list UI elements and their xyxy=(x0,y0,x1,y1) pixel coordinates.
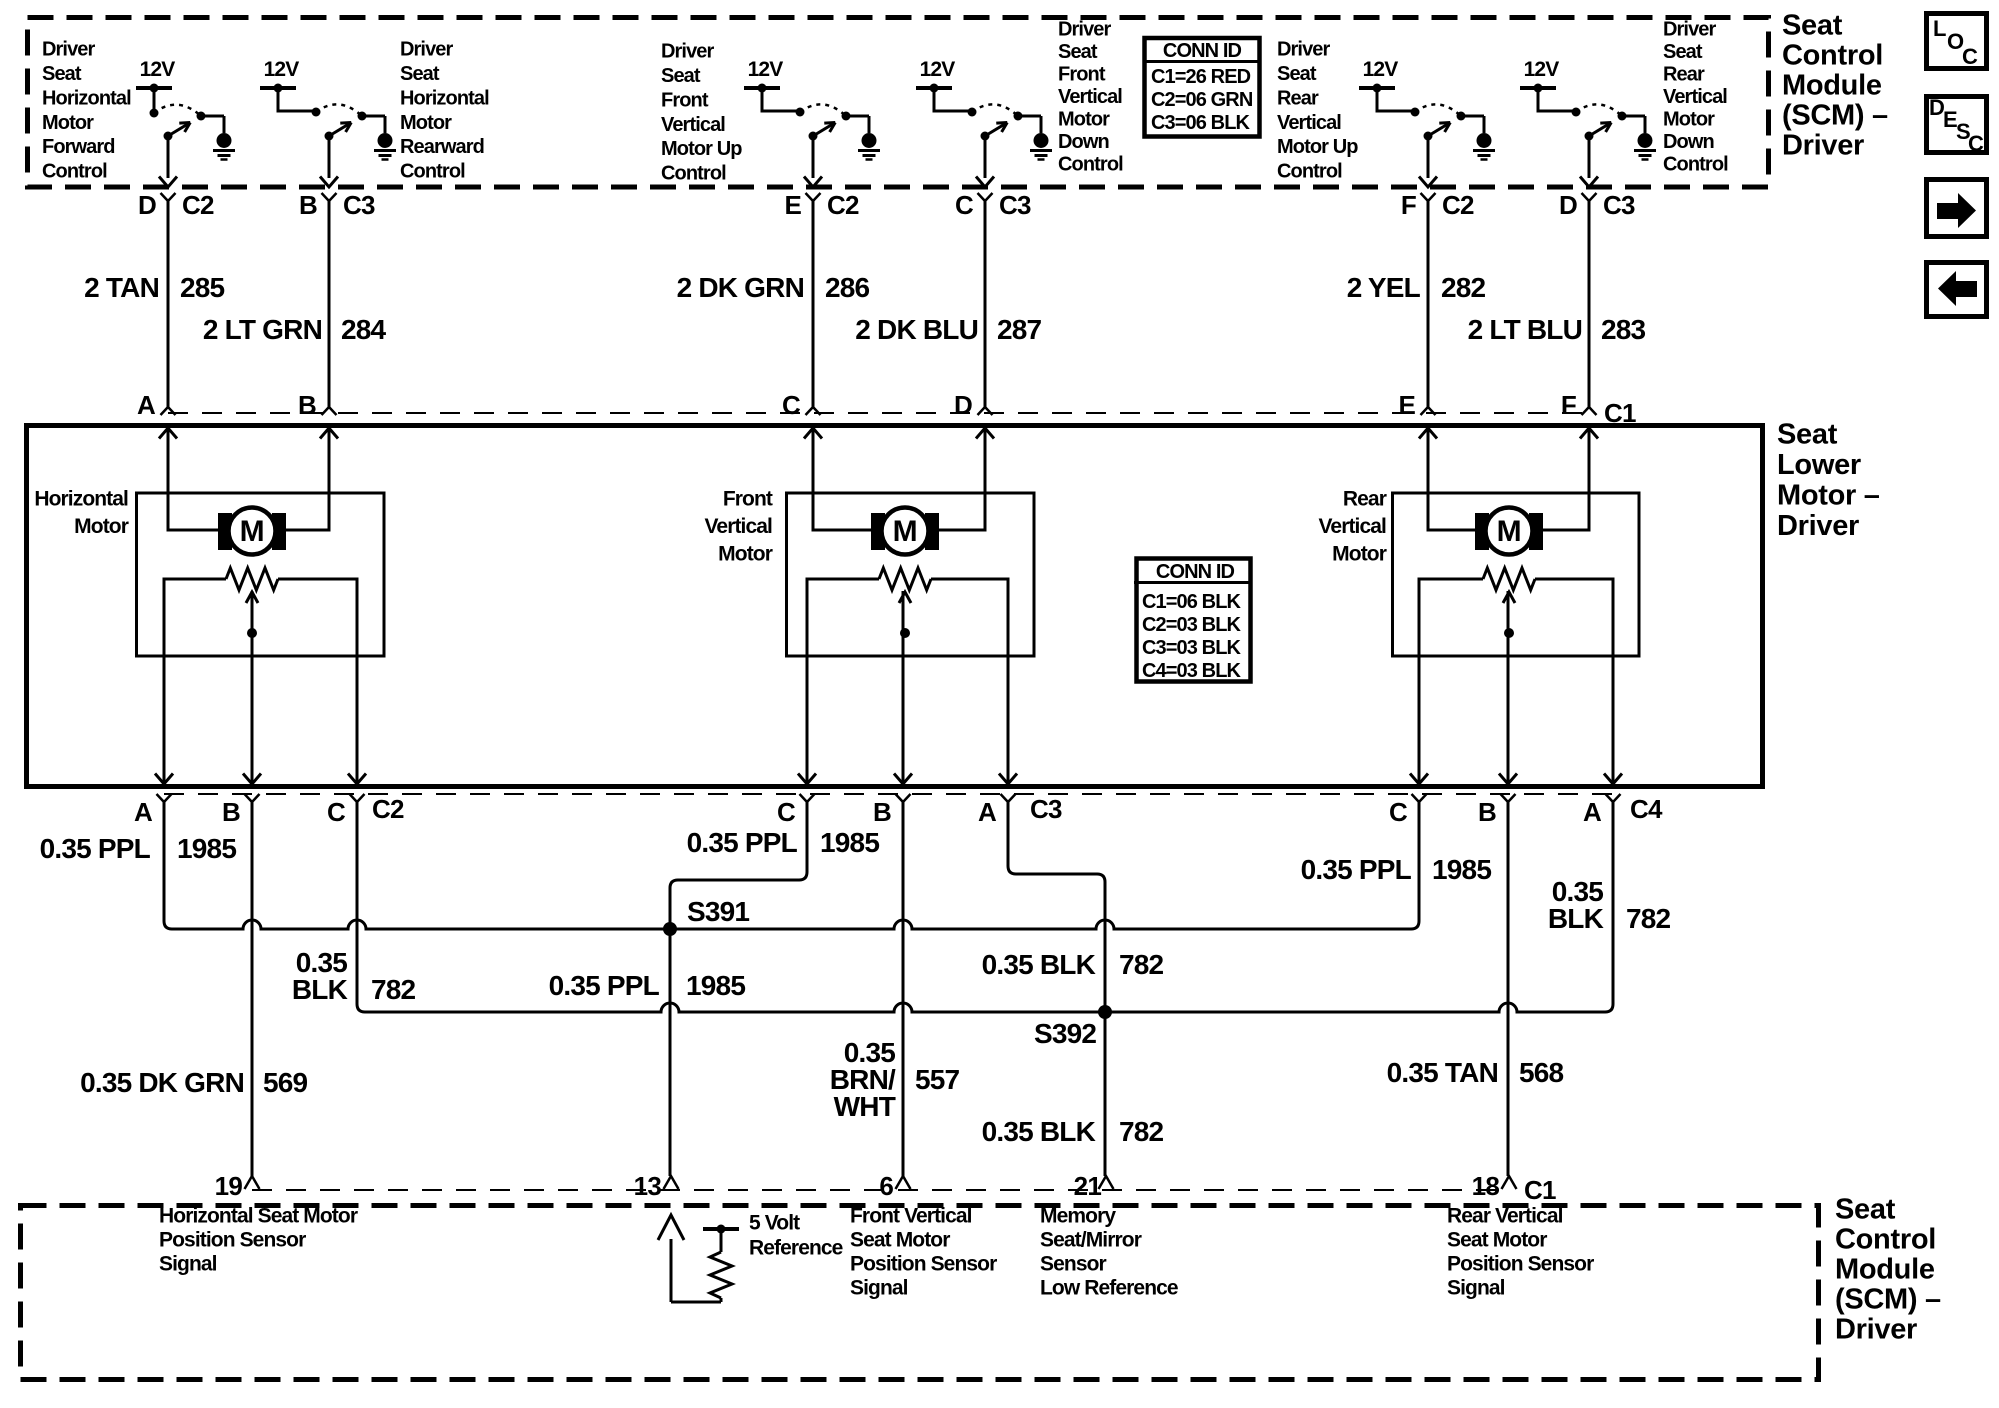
svg-text:287: 287 xyxy=(997,314,1042,345)
pin B of seat lower motor bottom connector xyxy=(896,794,911,802)
ground symbol of switch S4 (front vertical down) xyxy=(1018,115,1041,118)
svg-text:Lower: Lower xyxy=(1777,449,1861,481)
svg-text:0.35 DK GRN: 0.35 DK GRN xyxy=(80,1067,244,1098)
svg-text:C2: C2 xyxy=(827,190,859,220)
svg-text:L: L xyxy=(1933,16,1946,41)
switch S3 (front vertical up) - contact point xyxy=(842,112,851,121)
svg-text:C2: C2 xyxy=(372,794,404,824)
svg-text:Control: Control xyxy=(1277,161,1342,183)
svg-text:569: 569 xyxy=(263,1067,308,1098)
svg-text:Reference: Reference xyxy=(749,1236,843,1259)
svg-text:Control: Control xyxy=(1782,40,1883,72)
svg-text:285: 285 xyxy=(180,272,225,303)
next-page arrow box xyxy=(1927,180,1987,237)
position sensor potentiometer of Horizontal Motor - resistive element xyxy=(226,568,278,590)
svg-text:D: D xyxy=(954,390,972,420)
signal arrow into motor box at pin B xyxy=(320,428,338,439)
svg-text:Control: Control xyxy=(42,161,107,183)
svg-text:Down: Down xyxy=(1663,131,1714,153)
switch S2 (seat rearward) - dashed throw arc xyxy=(316,104,362,116)
svg-text:0.35 PPL: 0.35 PPL xyxy=(1301,854,1412,885)
pin E / connector C2 of SCM top xyxy=(806,193,821,201)
svg-text:Control: Control xyxy=(1663,154,1728,176)
SCM pin 13 xyxy=(664,1176,679,1189)
signal arrow leaving motor box xyxy=(1604,774,1622,785)
svg-text:Motor: Motor xyxy=(42,112,94,134)
svg-text:BLK: BLK xyxy=(1548,903,1604,934)
switch S5 (rear vertical up) - supply stem wire xyxy=(1377,88,1415,111)
svg-text:21: 21 xyxy=(1074,1171,1102,1201)
signal arrow leaving motor box xyxy=(1499,774,1517,785)
svg-text:Front: Front xyxy=(1058,64,1106,86)
switch S4 (front vertical down) - dashed throw arc xyxy=(972,104,1018,116)
rear vertical motor sensor lead A (right) xyxy=(1535,579,1613,784)
svg-text:C3=06 BLK: C3=06 BLK xyxy=(1151,112,1251,134)
svg-text:6: 6 xyxy=(879,1171,893,1201)
svg-text:2 LT BLU: 2 LT BLU xyxy=(1468,314,1582,345)
Horizontal Motor sub-assembly box xyxy=(137,493,385,656)
signal arrow leaving motor box xyxy=(243,774,261,785)
svg-text:B: B xyxy=(299,190,317,220)
motor Horizontal Motor - terminal blocks xyxy=(218,513,232,550)
svg-text:2 LT GRN: 2 LT GRN xyxy=(203,314,322,345)
wire pin A to horizontal motor + terminal xyxy=(168,428,218,530)
svg-text:C4: C4 xyxy=(1630,794,1663,824)
svg-text:782: 782 xyxy=(1119,949,1164,980)
ground symbol of switch S1 (seat forward) xyxy=(201,115,224,118)
svg-text:Control: Control xyxy=(400,161,465,183)
motor Horizontal Motor - armature circle with M xyxy=(229,508,276,555)
svg-text:0.35 BLK: 0.35 BLK xyxy=(982,1116,1096,1147)
wire from SCM pin B (C3) down to seat lower motor xyxy=(328,201,331,407)
pin A of seat lower motor connector xyxy=(161,407,176,415)
svg-text:Rear Vertical: Rear Vertical xyxy=(1447,1204,1563,1227)
switch S4 (front vertical down) - 12V supply bar xyxy=(916,86,952,90)
svg-text:Driver: Driver xyxy=(1058,19,1112,41)
ground symbol of switch S3 (front vertical up) xyxy=(846,115,869,118)
signal arrow leaving motor box xyxy=(155,774,173,785)
switch S1 (seat forward) - lever with arrowhead xyxy=(164,132,173,141)
SCM pin 21 xyxy=(1099,1176,1114,1189)
svg-text:0.35 PPL: 0.35 PPL xyxy=(40,833,151,864)
connector ID table (SCM): C1=26 RED C2=06 GRN C3=06 BLK xyxy=(1145,38,1260,137)
svg-text:Vertical: Vertical xyxy=(1277,112,1341,134)
svg-text:C4=03 BLK: C4=03 BLK xyxy=(1142,660,1242,682)
svg-text:Position Sensor: Position Sensor xyxy=(1447,1252,1594,1275)
svg-text:Driver: Driver xyxy=(661,41,715,63)
signal arrow into motor box at pin C xyxy=(804,428,822,439)
svg-text:WHT: WHT xyxy=(834,1091,896,1122)
switch S4 (front vertical down) - lever with arrowhead xyxy=(981,132,990,141)
svg-text:D: D xyxy=(138,190,156,220)
svg-text:C1=06 BLK: C1=06 BLK xyxy=(1142,591,1242,613)
front vertical motor sensor lead C (left) xyxy=(807,579,879,784)
potentiometer Horizontal Motor - wiper arrow xyxy=(246,592,258,603)
svg-text:1985: 1985 xyxy=(1432,854,1491,885)
svg-text:Rearward: Rearward xyxy=(400,136,484,158)
SCM pin 18 xyxy=(1502,1176,1517,1189)
svg-text:C2=06 GRN: C2=06 GRN xyxy=(1151,89,1253,111)
svg-text:Seat: Seat xyxy=(42,63,82,85)
svg-text:Front Vertical: Front Vertical xyxy=(850,1204,972,1227)
switch S1 (seat forward) - output wire to module pin xyxy=(167,136,170,178)
signal arrow into motor box at pin A xyxy=(159,428,177,439)
SCM pin 19 xyxy=(245,1176,260,1189)
svg-text:Seat: Seat xyxy=(1277,63,1317,85)
switch S3 (front vertical up) - 12V supply bar xyxy=(744,86,780,90)
svg-text:Rear: Rear xyxy=(1277,87,1319,109)
svg-text:Driver: Driver xyxy=(1663,19,1717,41)
svg-text:C2=03 BLK: C2=03 BLK xyxy=(1142,614,1242,636)
svg-text:Seat: Seat xyxy=(400,63,440,85)
svg-text:Memory: Memory xyxy=(1040,1204,1116,1227)
svg-text:Horizontal Seat Motor: Horizontal Seat Motor xyxy=(159,1204,358,1227)
pin F / connector C2 of SCM top xyxy=(1421,193,1436,201)
svg-text:12V: 12V xyxy=(748,58,784,81)
svg-text:C: C xyxy=(1962,44,1978,69)
pin D of seat lower motor connector xyxy=(978,407,993,415)
potentiometer Horizontal Motor - wiper junction dot xyxy=(247,628,257,638)
ground symbol of switch S2 (seat rearward) xyxy=(362,115,385,118)
ground symbol of switch S6 (rear vertical down) xyxy=(1622,115,1645,118)
pin C of seat lower motor bottom connector xyxy=(350,794,365,802)
svg-text:Motor Up: Motor Up xyxy=(661,138,742,160)
switch S6 (rear vertical down) - dashed throw arc xyxy=(1576,104,1622,116)
svg-text:C: C xyxy=(955,190,974,220)
switch S3 (front vertical up) - supply stem wire xyxy=(762,88,800,111)
splice S391 xyxy=(663,922,677,936)
pin D / connector C3 of SCM top xyxy=(1582,193,1597,201)
signal arrow leaving motor box xyxy=(348,774,366,785)
svg-text:Driver: Driver xyxy=(1277,39,1331,61)
svg-text:Vertical: Vertical xyxy=(661,114,725,136)
svg-text:Seat: Seat xyxy=(1782,10,1843,42)
pin E of seat lower motor connector xyxy=(1421,407,1436,415)
wire: 0.35 DK GRN 569 from pin B to SCM pin 19 xyxy=(251,802,254,1176)
signal arrow leaving motor box xyxy=(894,774,912,785)
svg-text:Vertical: Vertical xyxy=(1058,86,1122,108)
svg-text:Driver: Driver xyxy=(1777,510,1859,542)
switch S2 (seat rearward) - supply stem wire xyxy=(278,88,316,111)
motor Front Vertical Motor - armature circle with M xyxy=(882,508,929,555)
svg-text:Module: Module xyxy=(1782,70,1882,102)
svg-text:C: C xyxy=(1389,797,1408,827)
pin B of seat lower motor bottom connector xyxy=(1501,794,1516,802)
signal arrow leaving motor box xyxy=(1410,774,1428,785)
svg-text:S391: S391 xyxy=(687,896,749,927)
horizontal motor wiper lead B xyxy=(251,591,254,784)
wire pin E to rear vertical motor + terminal xyxy=(1428,428,1475,530)
wire from SCM pin E (C2) down to seat lower motor xyxy=(812,201,815,407)
svg-text:C1: C1 xyxy=(1524,1175,1556,1205)
svg-text:CONN ID: CONN ID xyxy=(1156,561,1235,583)
signal arrow into motor box at pin E xyxy=(1419,428,1437,439)
svg-text:1985: 1985 xyxy=(686,970,745,1001)
svg-text:1985: 1985 xyxy=(177,833,236,864)
switch S5 (rear vertical up) - lever with arrowhead xyxy=(1424,132,1433,141)
horizontal motor sensor lead A (left) xyxy=(164,579,226,784)
svg-text:F: F xyxy=(1561,390,1576,420)
switch S1 (seat forward) - contact point xyxy=(197,112,206,121)
motor Rear Vertical Motor - armature circle with M xyxy=(1486,508,1533,555)
svg-text:Horizontal: Horizontal xyxy=(400,87,489,109)
connector ID table (motor): C1=06 BLK C2=03 BLK C3=03 BLK C4=03 BLK xyxy=(1137,559,1251,682)
svg-text:C: C xyxy=(327,797,346,827)
svg-text:Driver: Driver xyxy=(1782,130,1864,162)
ground symbol of switch S5 (rear vertical up) xyxy=(1461,115,1484,118)
potentiometer Rear Vertical Motor - wiper arrow xyxy=(1503,592,1515,603)
svg-text:Driver: Driver xyxy=(1835,1314,1917,1346)
Front Vertical Motor sub-assembly box xyxy=(787,493,1035,656)
svg-text:18: 18 xyxy=(1472,1171,1500,1201)
svg-text:Horizontal: Horizontal xyxy=(42,87,131,109)
svg-text:Driver: Driver xyxy=(42,39,96,61)
svg-text:Signal: Signal xyxy=(1447,1276,1505,1299)
svg-text:Seat Motor: Seat Motor xyxy=(850,1228,950,1251)
svg-text:Seat: Seat xyxy=(661,65,701,87)
switch S3 (front vertical up) - output wire to module pin xyxy=(812,136,815,178)
svg-text:C3: C3 xyxy=(1603,190,1635,220)
wire: 0.35 BLK 782 from front vertical motor pin A to S392 xyxy=(1008,802,1105,1176)
svg-text:1985: 1985 xyxy=(820,827,879,858)
svg-text:(SCM) –: (SCM) – xyxy=(1835,1284,1941,1316)
motor Front Vertical Motor - terminal blocks xyxy=(871,513,885,550)
switch S4 (front vertical down) - output wire to module pin xyxy=(984,136,987,178)
svg-text:Position Sensor: Position Sensor xyxy=(850,1252,997,1275)
svg-text:M: M xyxy=(240,515,265,548)
switch S2 (seat rearward) - contact point xyxy=(358,112,367,121)
net run: 0.35 PPL 1985 sensor supply bus (through S391) xyxy=(164,802,1419,929)
pin C / connector C3 of SCM top xyxy=(978,193,993,201)
switch S1 (seat forward) - 12V supply bar xyxy=(136,86,172,90)
pin C of seat lower motor connector xyxy=(806,407,821,415)
pin B of seat lower motor connector xyxy=(322,407,337,415)
svg-text:Position Sensor: Position Sensor xyxy=(159,1228,306,1251)
svg-text:Motor: Motor xyxy=(1332,542,1387,565)
switch S1 (seat forward) - supply stem wire xyxy=(153,88,156,112)
svg-text:C: C xyxy=(782,390,801,420)
svg-text:A: A xyxy=(137,390,156,420)
svg-text:Driver: Driver xyxy=(400,39,454,61)
svg-text:C1=26 RED: C1=26 RED xyxy=(1151,66,1251,88)
rear vertical motor wiper lead B xyxy=(1507,591,1510,784)
pin F of seat lower motor connector xyxy=(1582,407,1597,415)
signal arrow into motor box at pin D xyxy=(976,428,994,439)
svg-text:C3: C3 xyxy=(1030,794,1062,824)
svg-text:Signal: Signal xyxy=(159,1252,217,1275)
svg-text:19: 19 xyxy=(215,1171,243,1201)
svg-text:0.35 BLK: 0.35 BLK xyxy=(982,949,1096,980)
svg-text:2 DK GRN: 2 DK GRN xyxy=(677,272,804,303)
svg-text:C: C xyxy=(777,797,796,827)
splice S392 xyxy=(1098,1005,1112,1019)
switch S6 (rear vertical down) - contact point xyxy=(1618,112,1627,121)
svg-text:Seat: Seat xyxy=(1663,41,1703,63)
svg-text:Vertical: Vertical xyxy=(704,515,772,538)
wire from SCM pin D (C2) down to seat lower motor xyxy=(167,201,170,407)
svg-text:Seat: Seat xyxy=(1777,419,1838,451)
svg-text:Motor: Motor xyxy=(718,542,773,565)
pin B of seat lower motor bottom connector xyxy=(245,794,260,802)
SCM pin 6 xyxy=(896,1176,911,1189)
svg-text:E: E xyxy=(1943,107,1957,132)
svg-text:C: C xyxy=(1968,131,1984,156)
thin dashed harness line at seat lower motor bottom connector xyxy=(164,793,1613,795)
svg-text:Seat/Mirror: Seat/Mirror xyxy=(1040,1228,1142,1251)
rear vertical motor sensor lead C (left) xyxy=(1419,579,1483,784)
wire from SCM pin C (C3) down to seat lower motor xyxy=(984,201,987,407)
svg-text:Motor: Motor xyxy=(400,112,452,134)
wire: 0.35 TAN 568 from rear vertical motor pin B to SCM pin 18 xyxy=(1507,802,1510,1176)
wire pin D to front vertical motor - terminal xyxy=(939,428,985,530)
svg-text:12V: 12V xyxy=(264,58,300,81)
switch S3 (front vertical up) - lever with arrowhead xyxy=(809,132,818,141)
pin C of seat lower motor bottom connector xyxy=(800,794,815,802)
svg-text:Control: Control xyxy=(1058,154,1123,176)
switch S6 (rear vertical down) - lever with arrowhead xyxy=(1585,132,1594,141)
svg-text:D: D xyxy=(1559,190,1577,220)
net run: 0.35 BLK 782 low reference bus (through S392) xyxy=(357,802,1613,1012)
svg-text:C3=03 BLK: C3=03 BLK xyxy=(1142,637,1242,659)
wire pin B to horizontal motor - terminal xyxy=(286,428,329,530)
svg-text:2 TAN: 2 TAN xyxy=(84,272,159,303)
svg-text:782: 782 xyxy=(1626,903,1671,934)
svg-text:Motor: Motor xyxy=(1058,109,1110,131)
svg-text:BLK: BLK xyxy=(292,974,348,1005)
svg-text:(SCM) –: (SCM) – xyxy=(1782,100,1888,132)
svg-text:Sensor: Sensor xyxy=(1040,1252,1107,1275)
wire pin C to front vertical motor + terminal xyxy=(813,428,871,530)
svg-text:D: D xyxy=(1929,95,1944,120)
pin A of seat lower motor bottom connector xyxy=(1001,794,1016,802)
Seat Lower Motor - Driver module box xyxy=(27,426,1763,787)
svg-text:Motor: Motor xyxy=(74,515,129,538)
svg-text:Signal: Signal xyxy=(850,1276,908,1299)
signal arrow into motor box at pin F xyxy=(1580,428,1598,439)
switch S2 (seat rearward) - lever with arrowhead xyxy=(325,132,334,141)
previous-page arrow box xyxy=(1927,263,1987,317)
switch S5 (rear vertical up) - contact point xyxy=(1457,112,1466,121)
svg-text:284: 284 xyxy=(341,314,387,345)
switch S2 (seat rearward) - output wire to module pin xyxy=(328,136,331,178)
switch S1 (seat forward) - dashed throw arc xyxy=(154,105,201,116)
svg-text:12V: 12V xyxy=(140,58,176,81)
wire from SCM pin F (C2) down to seat lower motor xyxy=(1427,201,1430,407)
svg-text:Seat: Seat xyxy=(1058,41,1098,63)
svg-text:Control: Control xyxy=(1835,1224,1936,1256)
switch S5 (rear vertical up) - output wire to module pin xyxy=(1427,136,1430,178)
wire: 0.35 PPL 1985 from front vertical motor pin C xyxy=(670,802,807,1176)
DESC legend box xyxy=(1927,97,1987,153)
svg-text:M: M xyxy=(893,515,918,548)
svg-text:E: E xyxy=(784,190,801,220)
front vertical motor sensor lead A (right) xyxy=(931,579,1008,784)
switch S6 (rear vertical down) - supply stem wire xyxy=(1538,88,1576,111)
svg-text:Vertical: Vertical xyxy=(1663,86,1727,108)
pin B / connector C3 of SCM top xyxy=(322,193,337,201)
svg-text:2 DK BLU: 2 DK BLU xyxy=(855,314,978,345)
switch S4 (front vertical down) - supply stem wire xyxy=(934,88,972,111)
signal arrow leaving motor box xyxy=(999,774,1017,785)
LOC legend box xyxy=(1927,14,1987,69)
potentiometer Front Vertical Motor - wiper junction dot xyxy=(900,628,910,638)
svg-text:12V: 12V xyxy=(1363,58,1399,81)
svg-text:0.35 TAN: 0.35 TAN xyxy=(1387,1057,1498,1088)
pin A of seat lower motor bottom connector xyxy=(1606,794,1621,802)
svg-text:Module: Module xyxy=(1835,1254,1935,1286)
svg-text:CONN ID: CONN ID xyxy=(1163,40,1242,62)
signal arrow into SCM at pin 13 xyxy=(658,1215,684,1240)
wire from SCM pin D (C3) down to seat lower motor xyxy=(1588,201,1591,407)
switch S5 (rear vertical up) - dashed throw arc xyxy=(1415,104,1461,116)
svg-text:C3: C3 xyxy=(343,190,375,220)
pin D / connector C2 of SCM top xyxy=(161,193,176,201)
svg-text:Front: Front xyxy=(723,487,773,510)
pin A of seat lower motor bottom connector xyxy=(157,794,172,802)
svg-text:12V: 12V xyxy=(1524,58,1560,81)
svg-text:Front: Front xyxy=(661,89,709,111)
svg-text:568: 568 xyxy=(1519,1057,1564,1088)
svg-text:B: B xyxy=(1478,797,1496,827)
svg-text:S392: S392 xyxy=(1034,1018,1096,1049)
svg-text:Forward: Forward xyxy=(42,136,115,158)
signal arrow leaving motor box xyxy=(798,774,816,785)
svg-text:Low Reference: Low Reference xyxy=(1040,1276,1178,1299)
switch S6 (rear vertical down) - output wire to module pin xyxy=(1588,136,1591,178)
svg-text:Down: Down xyxy=(1058,131,1109,153)
Seat Control Module (SCM) Driver - top module dashed box xyxy=(28,18,1769,188)
svg-text:Seat Motor: Seat Motor xyxy=(1447,1228,1547,1251)
svg-text:Motor: Motor xyxy=(1663,109,1715,131)
svg-text:B: B xyxy=(222,797,240,827)
svg-text:5 Volt: 5 Volt xyxy=(749,1211,800,1234)
wire pin F to rear vertical motor - terminal xyxy=(1543,428,1589,530)
svg-text:283: 283 xyxy=(1601,314,1646,345)
svg-text:C2: C2 xyxy=(182,190,214,220)
horizontal motor sensor lead C (right) xyxy=(278,579,357,784)
svg-text:A: A xyxy=(1583,797,1602,827)
svg-text:Motor –: Motor – xyxy=(1777,480,1880,512)
thin dashed harness line at bottom SCM connector xyxy=(252,1189,1509,1191)
svg-text:Rear: Rear xyxy=(1343,487,1387,510)
switch S6 (rear vertical down) - 12V supply bar xyxy=(1520,86,1556,90)
svg-text:M: M xyxy=(1497,515,1522,548)
svg-text:2 YEL: 2 YEL xyxy=(1347,272,1421,303)
svg-text:B: B xyxy=(298,390,316,420)
svg-text:557: 557 xyxy=(915,1064,960,1095)
thin dashed harness line at seat lower motor top connector xyxy=(168,412,1589,414)
5 volt reference pull-up resistor inside SCM xyxy=(670,1239,673,1302)
svg-text:0.35 PPL: 0.35 PPL xyxy=(549,970,660,1001)
svg-text:Horizontal: Horizontal xyxy=(34,487,128,510)
svg-text:782: 782 xyxy=(371,974,416,1005)
svg-text:C2: C2 xyxy=(1442,190,1474,220)
svg-text:A: A xyxy=(978,797,997,827)
svg-text:F: F xyxy=(1401,190,1416,220)
svg-text:12V: 12V xyxy=(920,58,956,81)
pin C of seat lower motor bottom connector xyxy=(1412,794,1427,802)
svg-text:E: E xyxy=(1398,390,1415,420)
svg-text:C3: C3 xyxy=(999,190,1031,220)
switch S5 (rear vertical up) - 12V supply bar xyxy=(1359,86,1395,90)
switch S2 (seat rearward) - 12V supply bar xyxy=(260,86,296,90)
svg-text:Motor Up: Motor Up xyxy=(1277,136,1358,158)
switch S3 (front vertical up) - dashed throw arc xyxy=(800,104,846,116)
front vertical motor wiper lead B xyxy=(902,591,905,784)
svg-text:0.35 PPL: 0.35 PPL xyxy=(687,827,798,858)
position sensor potentiometer of Front Vertical Motor - resistive element xyxy=(879,568,931,590)
motor Rear Vertical Motor - terminal blocks xyxy=(1475,513,1489,550)
